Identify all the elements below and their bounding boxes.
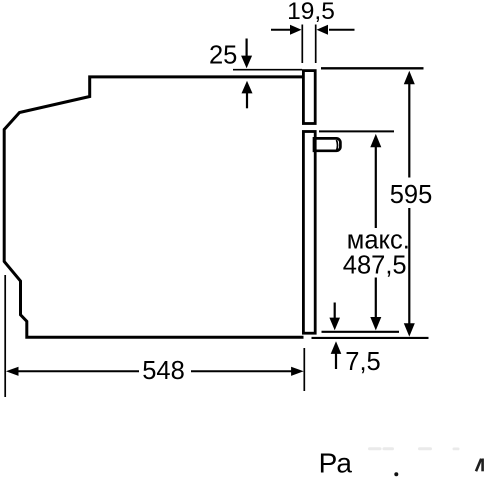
- watermark fragment л: [476, 459, 483, 472]
- svg-text:19,5: 19,5: [287, 0, 335, 25]
- door handle: [314, 138, 340, 150]
- 487,5 dimension line with arrows: [370, 134, 381, 331]
- svg-text:595: 595: [390, 181, 433, 209]
- 19,5 left arrow: [271, 25, 302, 35]
- watermark faint traces: [368, 447, 460, 450]
- svg-text:487,5: 487,5: [343, 252, 407, 280]
- 25 up arrow: [242, 81, 253, 109]
- 25 extension line: [233, 69, 302, 71]
- door-bottom reference line: [322, 331, 400, 333]
- 487,5 top reference line: [319, 130, 394, 132]
- 25 down arrow: [241, 39, 252, 69]
- 595 dimension line with arrows: [404, 71, 415, 337]
- 548 right extension line: [303, 348, 305, 391]
- 19,5 extension line left: [301, 25, 303, 64]
- svg-text:макс.: макс.: [347, 227, 410, 255]
- body-bottom reference line: [312, 337, 429, 339]
- oven body outline: [4, 77, 303, 337]
- 7,5 up arrow: [331, 341, 342, 369]
- svg-text:Ра: Ра: [319, 448, 353, 479]
- 595 top extension line: [321, 67, 424, 69]
- 548 dimension line with arrows: [6, 367, 304, 376]
- front frame upper section: [303, 71, 315, 124]
- svg-text:25: 25: [209, 42, 237, 70]
- front frame lower section (door): [303, 132, 315, 334]
- door handle end cap arc: [336, 140, 337, 151]
- watermark dot: [394, 472, 398, 476]
- svg-text:7,5: 7,5: [345, 348, 380, 376]
- 19,5 right arrow: [317, 25, 355, 35]
- 19,5 extension line right: [315, 25, 317, 64]
- 7,5 down arrow: [329, 303, 340, 331]
- 548 left extension line: [4, 275, 6, 397]
- svg-text:548: 548: [142, 357, 185, 385]
